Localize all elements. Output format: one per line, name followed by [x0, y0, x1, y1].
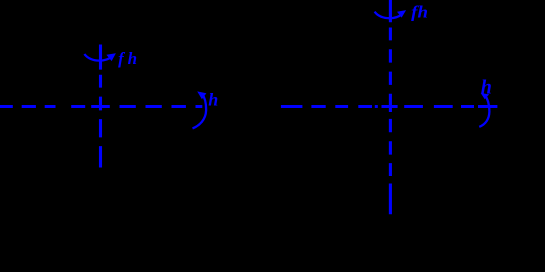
left figure: arrowhead of fh rotation arrow	[106, 53, 116, 61]
left figure: vertical dashed axis	[99, 45, 102, 168]
svg-text:fh: fh	[411, 3, 428, 22]
right figure: rotation arrow arc about vertical axis (fh)	[375, 12, 402, 19]
svg-text:h: h	[128, 49, 137, 68]
left figure: horizontal dashed axis	[0, 105, 202, 108]
right figure: arrowhead of fh rotation arrow	[397, 10, 406, 18]
right figure: horizontal dashed axis	[281, 105, 498, 108]
right figure: arrowhead of h rotation arrow	[481, 93, 490, 99]
left figure: rotation arrow arc about vertical axis (fh)	[84, 54, 111, 61]
left figure: rotation arrow arc about horizontal axis (h)	[193, 94, 207, 128]
right figure: rotation arrow arc about horizontal axis (h)	[479, 95, 489, 127]
left figure: arrowhead of h rotation arrow	[197, 91, 206, 99]
svg-text:h: h	[481, 77, 492, 99]
svg-text:h: h	[208, 89, 218, 109]
right figure: vertical dashed axis	[389, 0, 392, 214]
